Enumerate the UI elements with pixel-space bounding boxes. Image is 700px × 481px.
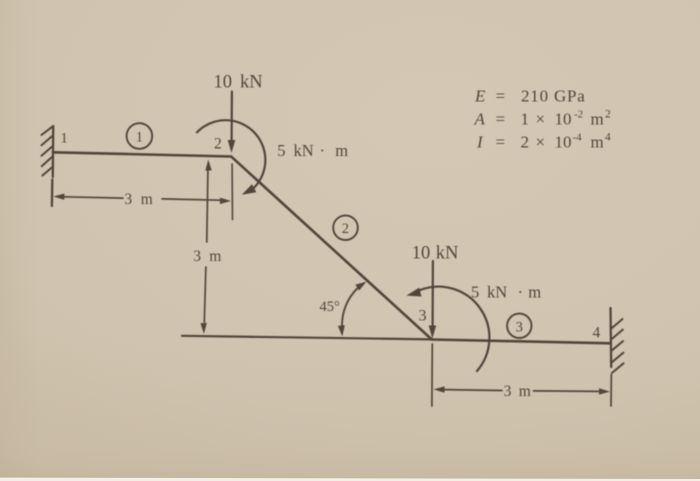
svg-text:10kN: 10kN xyxy=(412,244,459,264)
support 4 hatching xyxy=(611,319,623,373)
bottom dimension node3-node4 xyxy=(431,344,433,406)
member label circle 3 xyxy=(507,314,531,338)
svg-text:1: 1 xyxy=(136,130,143,146)
extension line below node 2 xyxy=(231,164,233,220)
horizontal dimension node1-node2 xyxy=(64,197,220,200)
baseline (angle reference) xyxy=(182,336,432,340)
member 3 (node3-node4) xyxy=(432,340,611,344)
svg-text:1: 1 xyxy=(61,131,68,147)
support 1 hatching xyxy=(42,127,53,176)
10 kN load arrow at node 2 xyxy=(231,92,233,142)
svg-text:3: 3 xyxy=(516,319,523,335)
svg-text:4: 4 xyxy=(593,325,601,342)
moment arrowhead node 3 xyxy=(405,288,421,300)
member 1 (node1-node2) xyxy=(53,152,231,156)
member 2 (diagonal node2-node3) xyxy=(231,157,431,340)
support wall node 1 xyxy=(52,126,53,206)
member label circle 1 xyxy=(127,123,153,149)
svg-text:2: 2 xyxy=(214,136,222,153)
svg-text:2: 2 xyxy=(342,221,349,237)
vertical dimension 3 m xyxy=(204,171,208,322)
svg-text:3: 3 xyxy=(419,308,427,325)
support wall node 4 xyxy=(609,308,612,367)
svg-text:I=2×10-4m4: I=2×10-4m4 xyxy=(476,132,611,152)
bottom white page edge xyxy=(0,478,700,481)
member label circle 2 xyxy=(333,215,358,240)
10 kN load arrow at node 3 xyxy=(432,261,434,326)
svg-text:45°: 45° xyxy=(320,299,341,315)
moment arrowhead node 2 xyxy=(240,184,257,199)
moment arc node 2 xyxy=(197,120,265,187)
45 degree arc xyxy=(342,288,358,326)
moment arc node 3 xyxy=(421,287,490,371)
